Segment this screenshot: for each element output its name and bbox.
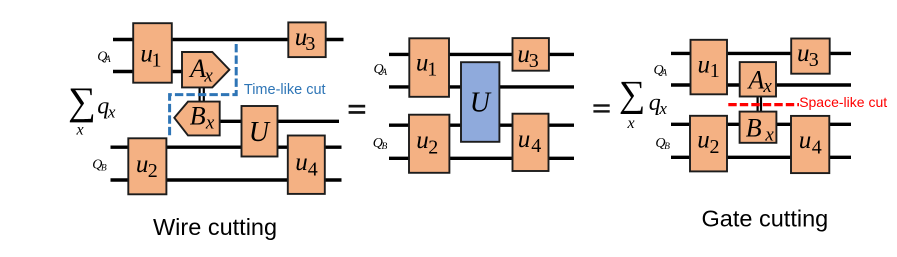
gate u2 middle [409,115,449,173]
wire B1 [111,145,342,148]
svg-text:4: 4 [531,135,541,157]
svg-text:x: x [107,102,116,121]
svg-text:x: x [205,113,215,134]
gate U (orange) [242,106,278,157]
svg-text:∑: ∑ [68,80,96,123]
svg-text:x: x [203,66,213,87]
svg-text:u: u [416,127,429,154]
svg-text:u: u [136,151,149,178]
gate U blue [461,62,499,142]
svg-text:4: 4 [812,136,822,158]
gate Bx pentagon [174,102,219,136]
classical double wire between Ax and Bx [199,86,201,102]
gate u1 right [691,40,728,95]
svg-text:x: x [76,122,84,139]
svg-text:4: 4 [308,158,318,180]
svg-text:2: 2 [148,160,158,182]
svg-text:x: x [627,115,635,132]
svg-text:Space-like cut: Space-like cut [799,94,887,110]
svg-text:B: B [101,164,107,174]
svg-text:U: U [249,117,271,148]
wire M1 [389,53,574,56]
gate u4 [288,136,325,194]
wire R1 [671,52,851,55]
gate u4 right [791,116,829,173]
svg-text:A: A [104,55,111,65]
wire M4 [389,157,574,160]
gate u1 [133,23,172,82]
red dashed space-like cut [728,103,799,106]
svg-text:x: x [764,125,774,146]
wire B2 [111,178,342,181]
wire M2 [389,85,574,88]
wire R3 [671,123,851,126]
equals sign 2 [593,104,609,106]
svg-text:3: 3 [529,50,539,72]
svg-text:1: 1 [710,60,720,82]
svg-text:2: 2 [428,136,438,158]
svg-text:u: u [295,149,308,176]
svg-text:2: 2 [710,136,720,158]
svg-text:3: 3 [809,49,819,71]
wire R2 [671,83,851,86]
svg-text:u: u [797,40,810,67]
svg-text:∑: ∑ [619,74,645,115]
svg-text:B: B [382,142,388,152]
svg-text:u: u [518,126,531,153]
svg-text:A: A [188,54,206,83]
svg-text:B: B [190,101,206,130]
gate u4 middle [513,114,549,171]
svg-text:x: x [658,99,667,118]
wire M3 [389,123,574,126]
svg-text:A: A [660,69,667,79]
classical double wire between Ax and Bx right [756,97,758,112]
svg-text:x: x [762,76,772,97]
gate u2 [128,138,166,194]
svg-text:1: 1 [152,50,162,72]
gate u3 [288,22,325,57]
wire R4 [671,156,851,159]
gate Ax right [740,62,776,96]
svg-text:u: u [698,51,711,78]
gate Ax pentagon [182,52,229,87]
svg-text:1: 1 [427,58,437,80]
gate u2 right [690,116,727,172]
blue dashed time-like cut path [170,44,237,137]
svg-text:3: 3 [305,33,315,55]
gate Bx right [740,112,777,143]
svg-text:u: u [697,126,710,153]
svg-text:U: U [470,88,492,119]
svg-text:A: A [747,65,765,94]
svg-text:B: B [746,113,762,142]
svg-text:Wire cutting: Wire cutting [153,214,277,240]
wire A2 [113,70,184,73]
wire cut-output from Bx through U [218,120,339,123]
svg-text:Time-like cut: Time-like cut [244,82,326,98]
svg-text:u: u [799,127,812,154]
gate u3 right [791,39,830,74]
svg-text:B: B [664,142,670,152]
svg-text:A: A [380,68,387,78]
svg-text:Gate cutting: Gate cutting [702,206,829,232]
gate u3 middle [513,38,549,71]
wire A1 top [113,38,344,41]
gate u1 middle [409,38,449,97]
equals sign 1 [349,105,366,108]
